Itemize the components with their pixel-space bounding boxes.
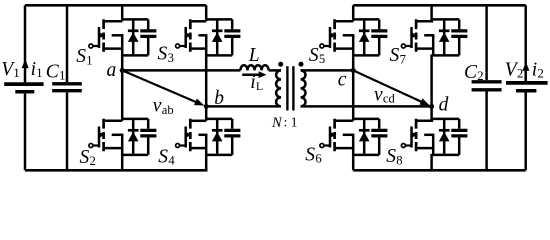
svg-text:4: 4	[168, 154, 175, 168]
svg-text:2: 2	[90, 154, 96, 168]
wire: S7 source leg down to node d	[430, 54, 433, 106]
wire: top rail of primary bridge	[25, 4, 206, 7]
wire: S3 source leg down to node b (crosses node-a wire)	[205, 54, 208, 106]
svg-text:S: S	[390, 45, 400, 66]
current iL arrow	[242, 71, 266, 78]
switch cell S3: MOSFET with body diode and output capacitor	[176, 19, 241, 55]
svg-text:i: i	[532, 59, 537, 80]
wire: S6 drain leg from node c (crosses node-d wire)	[352, 70, 355, 120]
svg-text:1: 1	[86, 53, 92, 67]
switch cell S1: MOSFET with body diode and output capacitor	[89, 19, 156, 55]
svg-text:S: S	[305, 144, 315, 165]
svg-text:C: C	[464, 62, 478, 83]
switch cell S5: MOSFET with body diode and output capacitor	[320, 19, 388, 55]
svg-text:b: b	[214, 88, 224, 109]
wire: S6 source leg to bottom rail	[352, 154, 355, 170]
svg-text:a: a	[107, 60, 117, 81]
svg-text:S: S	[309, 45, 319, 66]
source V2 (battery) with output current i2 arrow	[506, 5, 548, 170]
svg-text:S: S	[386, 146, 396, 167]
wire: S4 source leg to bottom rail	[205, 154, 208, 170]
svg-text:L: L	[256, 79, 263, 93]
wire: S2 drain leg from node a	[121, 70, 124, 120]
svg-text:1: 1	[59, 69, 65, 83]
svg-text:2: 2	[538, 67, 544, 81]
wire: node a to inductor L	[122, 69, 240, 72]
wire: top rail of secondary bridge	[353, 4, 526, 7]
svg-text:i: i	[31, 59, 36, 80]
svg-text:1: 1	[13, 66, 19, 80]
wire: S8 drain leg from node d	[430, 106, 433, 120]
capacitor C1	[52, 5, 82, 170]
svg-text:S: S	[76, 46, 86, 67]
wire: transformer secondary bottom to node d (crosses S6 leg)	[301, 105, 432, 108]
svg-text:2: 2	[517, 67, 523, 81]
svg-text:S: S	[158, 44, 168, 65]
wire: node b to transformer primary bottom	[206, 105, 281, 108]
switch cell S8: MOSFET with body diode and output capacitor	[401, 119, 467, 155]
svg-text:c: c	[338, 69, 347, 90]
svg-text:N: N	[271, 115, 283, 131]
arrow for voltage vcd from node c to node d	[353, 70, 429, 105]
svg-text:6: 6	[315, 152, 321, 166]
node a junction dot	[120, 68, 125, 73]
node b junction dot	[204, 104, 209, 109]
svg-text:S: S	[80, 147, 90, 168]
svg-text:v: v	[153, 96, 162, 117]
capacitor C2	[472, 5, 502, 170]
svg-text:1: 1	[36, 66, 42, 80]
wire: S3 drain leg from top rail	[205, 5, 208, 21]
wire: S5 source leg down to node c	[352, 54, 355, 70]
wire: bottom rail of primary bridge	[25, 169, 208, 172]
wire: transformer secondary top to node c	[301, 69, 354, 72]
svg-text:i: i	[250, 72, 255, 93]
svg-text:S: S	[158, 146, 168, 167]
svg-text:d: d	[439, 94, 449, 115]
svg-text:8: 8	[396, 153, 402, 167]
wire: S1 drain leg from top rail	[121, 5, 124, 21]
transformer primary winding	[276, 70, 281, 106]
inductor L (4 arcs)	[240, 65, 268, 70]
primary polarity dot	[278, 62, 283, 67]
svg-text:2: 2	[477, 69, 483, 83]
svg-text:3: 3	[168, 51, 174, 65]
wire: inductor L to transformer primary top	[269, 69, 281, 72]
wire: bottom rail of secondary bridge	[353, 169, 526, 172]
arrow for voltage vab from node a to node b	[122, 70, 204, 105]
node c junction dot	[351, 68, 356, 73]
svg-text:L: L	[248, 45, 260, 66]
svg-text:C: C	[46, 61, 60, 82]
switch cell S4: MOSFET with body diode and output capacitor	[176, 119, 241, 155]
svg-text:7: 7	[400, 52, 406, 66]
switch cell S2: MOSFET with body diode and output capacitor	[89, 119, 156, 155]
wire: S4 drain leg from node b	[205, 106, 208, 120]
wire: S2 source leg to bottom rail	[121, 154, 124, 170]
wire: S7 drain leg from top rail	[430, 5, 433, 21]
transformer secondary winding	[301, 70, 306, 106]
wire: S8 source leg to bottom rail	[430, 154, 433, 170]
switch cell S6: MOSFET with body diode and output capacitor	[320, 119, 388, 155]
source V1 (battery) with input current i1 arrow	[4, 5, 43, 170]
svg-text:: 1: : 1	[284, 115, 298, 130]
svg-text:v: v	[374, 84, 383, 105]
svg-text:cd: cd	[383, 92, 396, 106]
wire: S5 drain leg from top rail	[352, 5, 355, 21]
node d junction dot	[429, 104, 434, 109]
switch cell S7: MOSFET with body diode and output capacitor	[401, 19, 467, 55]
secondary polarity dot	[299, 62, 304, 67]
svg-text:ab: ab	[162, 103, 174, 117]
svg-text:5: 5	[319, 52, 325, 66]
transformer core	[287, 66, 293, 110]
wire: S1 source leg down to node a	[121, 54, 124, 70]
